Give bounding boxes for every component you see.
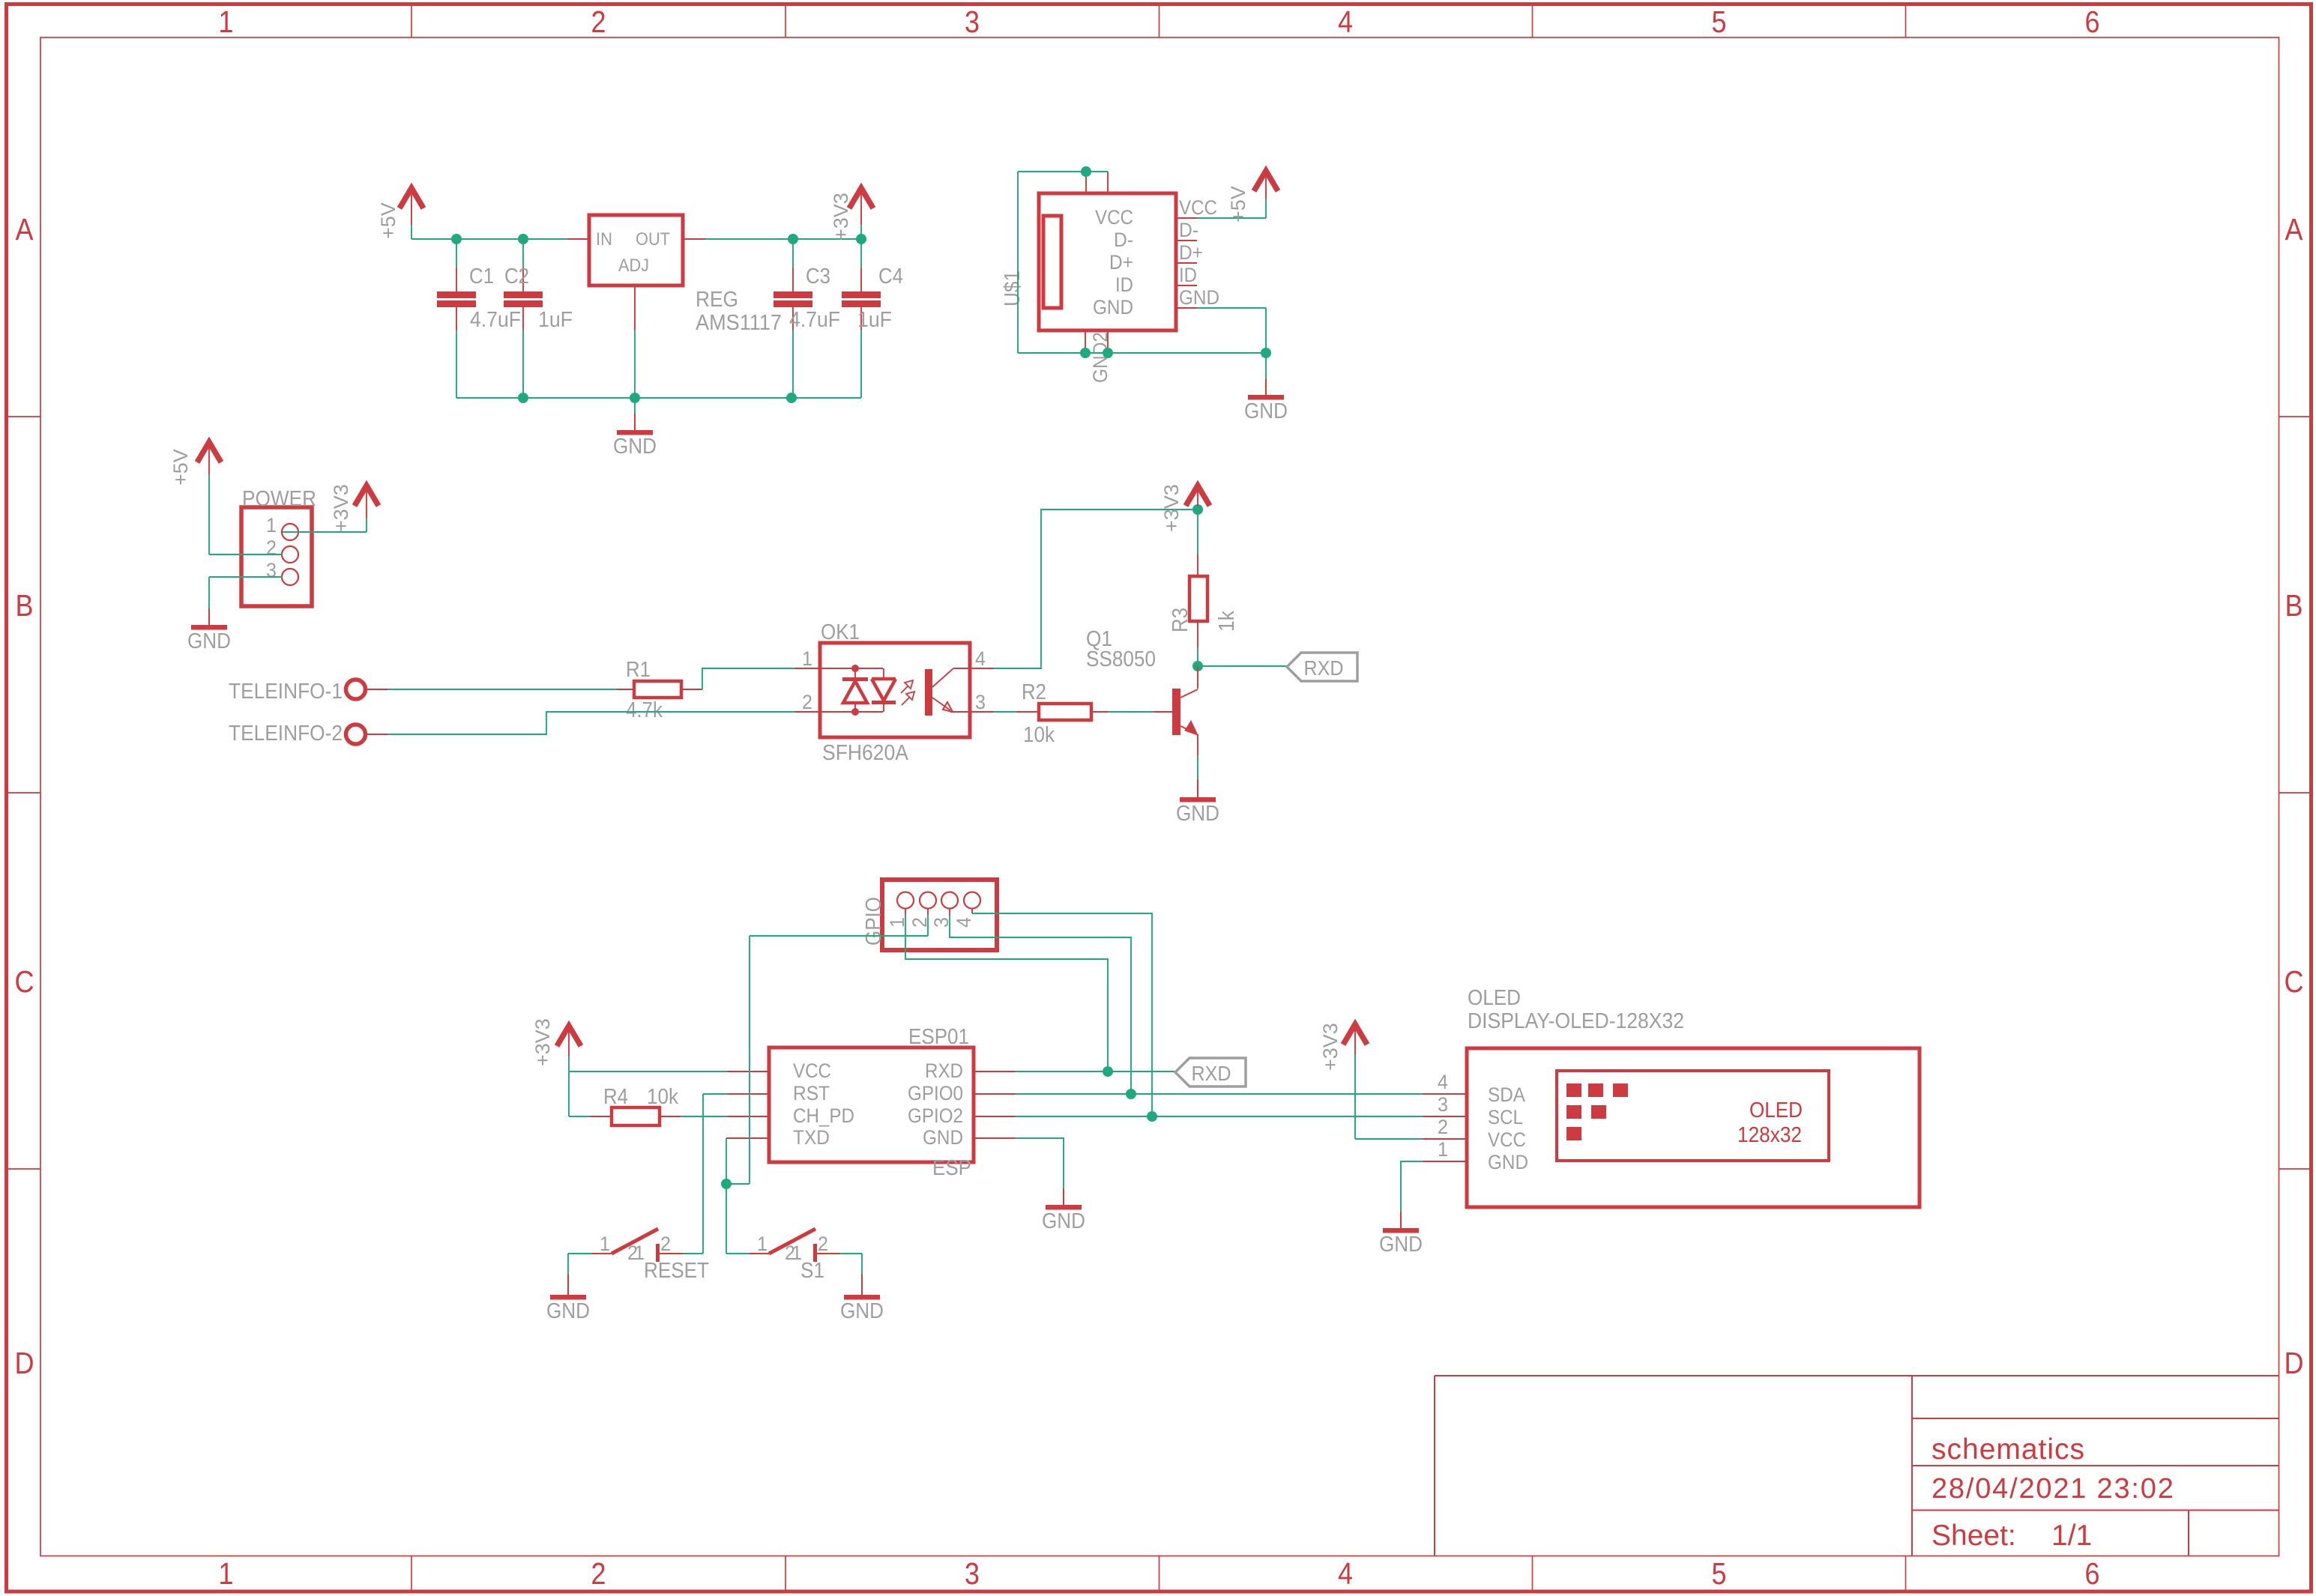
- svg-text:GPIO2: GPIO2: [908, 1104, 963, 1127]
- OK1 led network: [820, 668, 883, 669]
- svg-text:C1: C1: [469, 265, 494, 288]
- svg-text:2: 2: [591, 4, 606, 39]
- junction top shield: [1081, 166, 1091, 177]
- svg-text:28/04/2021 23:02: 28/04/2021 23:02: [1931, 1473, 2175, 1505]
- svg-text:5: 5: [1712, 1556, 1727, 1591]
- svg-text:4.7uF: 4.7uF: [789, 308, 840, 332]
- wire TELEINFO-2 to OK1 pin2: [388, 712, 794, 734]
- svg-text:GND: GND: [546, 1299, 590, 1323]
- OK1 light arrows: [901, 686, 908, 693]
- svg-text:+5V: +5V: [377, 202, 399, 239]
- svg-text:1uF: 1uF: [857, 308, 892, 332]
- svg-text:TELEINFO-1: TELEINFO-1: [229, 680, 343, 704]
- svg-text:B: B: [2285, 588, 2303, 623]
- svg-text:RXD: RXD: [1192, 1062, 1231, 1085]
- svg-text:OLED: OLED: [1468, 986, 1521, 1010]
- junction C2 top: [518, 234, 528, 244]
- svg-text:+5V: +5V: [1227, 186, 1249, 223]
- svg-text:D: D: [15, 1346, 34, 1380]
- wire TXD net: [726, 1138, 727, 1184]
- wire +5V to pin2: [208, 475, 210, 554]
- svg-text:5: 5: [1712, 4, 1727, 39]
- GPIO pin2 wire to TXD: [927, 909, 929, 915]
- svg-text:4: 4: [1438, 1071, 1448, 1093]
- junction shield bottom 1: [1080, 348, 1091, 358]
- svg-text:GND: GND: [1042, 1209, 1085, 1233]
- svg-text:schematics: schematics: [1931, 1433, 2085, 1466]
- ESP01 GND pin stub: [974, 1137, 1016, 1139]
- svg-text:A: A: [2285, 212, 2304, 247]
- svg-text:GND: GND: [613, 435, 657, 459]
- ground GND (OLED): [1400, 1212, 1402, 1228]
- svg-text:SCL: SCL: [1488, 1106, 1523, 1128]
- svg-text:ESP01: ESP01: [908, 1025, 969, 1049]
- svg-text:RXD: RXD: [1304, 656, 1344, 680]
- svg-text:10k: 10k: [1023, 723, 1055, 747]
- svg-text:2: 2: [818, 1233, 828, 1255]
- capacitor C3: [792, 239, 794, 267]
- junction TXD node: [721, 1179, 732, 1189]
- svg-text:D: D: [2285, 1346, 2304, 1380]
- svg-text:C: C: [2285, 964, 2304, 999]
- svg-text:+3V3: +3V3: [531, 1018, 554, 1066]
- svg-text:GND: GND: [923, 1126, 963, 1149]
- OLED pin GND: [1423, 1161, 1467, 1162]
- svg-text:OLED: OLED: [1749, 1098, 1803, 1122]
- power +5V arrow (usb): [1254, 171, 1278, 191]
- svg-text:OK1: OK1: [821, 620, 860, 644]
- ground GND (RESET): [567, 1274, 569, 1295]
- svg-text:2: 2: [660, 1233, 671, 1255]
- svg-text:R4: R4: [603, 1085, 628, 1109]
- power +5V arrow (power conn): [197, 442, 221, 462]
- wire R2 to Q1 base: [1109, 711, 1154, 713]
- wire S1 pin2 to gnd: [840, 1253, 862, 1254]
- svg-text:1: 1: [600, 1233, 610, 1255]
- svg-text:RXD: RXD: [925, 1060, 963, 1082]
- junction +3V3/C4 top: [856, 234, 866, 244]
- svg-text:D-: D-: [1179, 219, 1198, 241]
- usb connector U$1: [1039, 193, 1176, 330]
- connector POWER: [241, 507, 312, 606]
- display OLED DISPLAY-OLED-128X32: [1467, 1048, 1920, 1207]
- svg-text:1k: 1k: [1215, 611, 1239, 632]
- svg-text:GND: GND: [187, 629, 231, 653]
- OLED pin VCC: [1423, 1138, 1467, 1140]
- pin shield (bottom left): [1085, 330, 1086, 353]
- wire R4 to CH_PD: [681, 1116, 727, 1117]
- OLED inner display box: [1557, 1071, 1829, 1161]
- svg-text:SDA: SDA: [1488, 1083, 1525, 1106]
- power +5V arrow (regulator input): [399, 188, 423, 208]
- wire usb GND pin: [1197, 307, 1266, 309]
- svg-text:TELEINFO-2: TELEINFO-2: [229, 722, 343, 746]
- svg-text:ESP: ESP: [932, 1156, 971, 1180]
- svg-text:SS8050: SS8050: [1086, 647, 1156, 671]
- wire OK1 pin3 to R2: [994, 711, 1016, 713]
- ADJ pin wire: [634, 285, 636, 330]
- svg-text:6: 6: [2085, 4, 2100, 39]
- optocoupler OK1 SFH620A: [820, 643, 970, 737]
- junction GPIO2 node: [1147, 1111, 1157, 1122]
- junction Q1 collector node: [1192, 661, 1203, 671]
- wire OUT to +3V3: [705, 238, 861, 240]
- svg-text:GND: GND: [1488, 1151, 1528, 1173]
- svg-text:C4: C4: [878, 265, 903, 288]
- svg-text:REG: REG: [696, 288, 738, 312]
- GPIO pin4 wire to GPIO2: [971, 909, 973, 913]
- wire +3V3 to VCC and R4: [568, 1057, 570, 1116]
- module ESP01: [769, 1048, 974, 1162]
- power +3V3 arrow (power conn): [355, 486, 379, 506]
- ground GND (Q1): [1197, 779, 1198, 797]
- pin 4 of GPIO: [964, 892, 980, 909]
- resistor R2 10k: [1016, 711, 1039, 713]
- svg-text:GND: GND: [1179, 286, 1219, 309]
- junction C2 bottom: [518, 393, 528, 403]
- power +3V3 arrow (regulator output): [849, 188, 873, 208]
- wire RST to RESET switch: [703, 1093, 727, 1095]
- svg-text:3: 3: [965, 4, 980, 39]
- svg-text:C: C: [15, 964, 34, 999]
- svg-text:C3: C3: [806, 265, 830, 288]
- svg-text:3: 3: [1438, 1093, 1448, 1116]
- junction gnd node: [1261, 348, 1271, 358]
- svg-text:1: 1: [219, 4, 234, 39]
- svg-text:3: 3: [975, 691, 986, 713]
- svg-text:GPIO: GPIO: [862, 897, 886, 946]
- wire RXD net: [1016, 1071, 1175, 1072]
- wire RESET pin1 to gnd: [568, 1253, 591, 1254]
- wire pin3 to gnd: [209, 576, 283, 578]
- svg-text:B: B: [16, 588, 34, 623]
- ESP01 TXD pin stub: [726, 1137, 769, 1139]
- wire usb gnd bottom: [1018, 352, 1266, 354]
- svg-text:D+: D+: [1109, 251, 1133, 273]
- svg-text:1uF: 1uF: [538, 308, 573, 332]
- junction ADJ/GND: [630, 393, 640, 403]
- svg-text:VCC: VCC: [1095, 206, 1133, 229]
- svg-text:GND: GND: [1093, 296, 1133, 318]
- svg-text:4: 4: [1338, 4, 1353, 39]
- svg-text:D+: D+: [1179, 241, 1203, 264]
- connector GPIO: [882, 880, 997, 950]
- svg-text:1: 1: [219, 1556, 234, 1591]
- capacitor C4: [860, 239, 862, 267]
- pin GND2 of U$1 (top): [1107, 172, 1109, 193]
- svg-text:CH_PD: CH_PD: [793, 1104, 854, 1127]
- svg-text:SFH620A: SFH620A: [822, 741, 909, 765]
- junction RXD node: [1103, 1066, 1113, 1077]
- pin 2 of POWER: [282, 546, 298, 563]
- svg-text:IN: IN: [596, 229, 612, 250]
- junction GPIO0 node: [1126, 1089, 1136, 1099]
- svg-text:DISPLAY-OLED-128X32: DISPLAY-OLED-128X32: [1468, 1009, 1684, 1033]
- svg-text:A: A: [16, 212, 34, 247]
- power +3V3 arrow (Q1): [1186, 486, 1210, 506]
- svg-text:U$1: U$1: [1001, 270, 1025, 306]
- svg-text:VCC: VCC: [1488, 1128, 1526, 1151]
- OLED pin SDA: [1423, 1093, 1467, 1095]
- svg-text:1: 1: [757, 1233, 768, 1255]
- svg-text:R2: R2: [1022, 680, 1046, 704]
- junction C3 top: [788, 234, 798, 244]
- svg-text:GND: GND: [840, 1299, 884, 1323]
- capacitor C2: [522, 239, 524, 267]
- svg-text:+3V3: +3V3: [830, 193, 852, 241]
- svg-text:ID: ID: [1115, 273, 1133, 296]
- wire R1 to OK1 pin1: [702, 668, 794, 689]
- wire GPIO2 net to OLED SDA: [1016, 1116, 1423, 1117]
- wire collector node to RXD flag: [1198, 665, 1287, 667]
- switch S1: [749, 1253, 769, 1254]
- resistor R4 10k: [590, 1116, 612, 1117]
- wire usb shield left: [1017, 172, 1019, 353]
- junction C1 top: [451, 234, 462, 244]
- net flag RXD (Q1): [1287, 653, 1357, 681]
- svg-text:S1: S1: [800, 1259, 824, 1283]
- GPIO pin3 wire to GPIO0: [949, 909, 950, 915]
- capacitor C1: [456, 239, 457, 267]
- svg-text:1: 1: [634, 1242, 645, 1264]
- wire +3V3 to OLED VCC: [1354, 1055, 1356, 1139]
- ESP01 RST pin stub: [727, 1093, 769, 1095]
- svg-text:128x32: 128x32: [1737, 1123, 1802, 1147]
- junction shield bottom 2: [1103, 348, 1113, 358]
- svg-text:4.7k: 4.7k: [626, 698, 663, 722]
- switch RESET: [591, 1253, 612, 1254]
- svg-text:R3: R3: [1168, 608, 1192, 632]
- svg-text:POWER: POWER: [242, 487, 316, 511]
- ground GND (S1): [861, 1274, 863, 1295]
- wire GPIO0 net to OLED SCL: [1016, 1093, 1423, 1095]
- svg-text:2: 2: [266, 536, 277, 559]
- wire TXD node to S1: [726, 1184, 727, 1254]
- ESP01 CH_PD pin stub: [727, 1116, 769, 1117]
- wire +5V to IN: [411, 225, 412, 239]
- pin 1 of POWER: [282, 524, 298, 540]
- svg-text:+3V3: +3V3: [1319, 1023, 1342, 1071]
- net flag RXD (ESP01): [1175, 1058, 1246, 1086]
- svg-text:1: 1: [1438, 1138, 1448, 1161]
- regulator REG AMS1117: [567, 238, 589, 240]
- OLED pin SCL: [1423, 1116, 1467, 1117]
- wire pin1 to +3V3: [283, 531, 367, 533]
- resistor R3 1k: [1197, 510, 1198, 554]
- ground GND (usb): [1265, 353, 1267, 378]
- Q1 emitter to gnd: [1197, 734, 1198, 756]
- svg-text:2: 2: [591, 1556, 606, 1591]
- svg-text:GPIO0: GPIO0: [908, 1082, 963, 1104]
- wire VCC to +5V: [1197, 217, 1266, 219]
- ground GND (regulator): [634, 398, 636, 414]
- power +3V3 arrow (ESP01): [557, 1026, 581, 1046]
- svg-text:GND: GND: [1379, 1233, 1423, 1257]
- wire TXD node to GPIO pin2: [726, 1183, 750, 1185]
- pin 2 of GPIO: [920, 892, 936, 909]
- ESP01 GPIO0 pin stub: [974, 1093, 1016, 1095]
- pin shield GND2 (bottom right): [1107, 330, 1109, 353]
- svg-text:1: 1: [802, 647, 812, 670]
- pin 1 of GPIO: [897, 892, 914, 909]
- svg-text:3: 3: [266, 559, 277, 581]
- svg-text:R1: R1: [626, 658, 651, 682]
- svg-text:+5V: +5V: [169, 449, 192, 486]
- svg-text:ADJ: ADJ: [618, 256, 649, 276]
- svg-text:OUT: OUT: [636, 229, 670, 250]
- svg-text:2: 2: [1438, 1116, 1448, 1138]
- wire usb shield top: [1018, 171, 1108, 172]
- OK1 pin3 stub: [970, 711, 994, 713]
- svg-text:4: 4: [1338, 1556, 1353, 1591]
- svg-text:VCC: VCC: [793, 1060, 831, 1082]
- svg-text:4: 4: [975, 647, 986, 670]
- OK1 phototransistor: [925, 669, 932, 716]
- svg-text:VCC: VCC: [1179, 196, 1217, 219]
- pin GND1 of U$1 (top): [1085, 172, 1087, 193]
- svg-text:RST: RST: [793, 1082, 830, 1104]
- pin 3 of GPIO: [941, 892, 958, 909]
- svg-text:D-: D-: [1114, 229, 1133, 251]
- ESP01 VCC pin stub: [727, 1071, 769, 1072]
- svg-text:4: 4: [953, 917, 975, 928]
- svg-text:GND: GND: [1176, 802, 1219, 826]
- svg-text:4.7uF: 4.7uF: [470, 308, 521, 332]
- ground GND (ESP01): [1063, 1188, 1064, 1205]
- svg-text:6: 6: [2085, 1556, 2100, 1591]
- svg-text:10k: 10k: [647, 1085, 678, 1109]
- ESP01 GPIO2 pin stub: [974, 1116, 1016, 1117]
- wire OLED GND: [1401, 1161, 1423, 1212]
- OK1 pin4 stub: [970, 668, 994, 669]
- svg-text:Sheet:: Sheet:: [1931, 1520, 2016, 1552]
- junction C3 bottom: [786, 393, 797, 403]
- svg-text:1/1: 1/1: [2051, 1520, 2092, 1552]
- svg-text:ID: ID: [1179, 264, 1197, 286]
- junction +3V3 node (Q1): [1192, 504, 1203, 515]
- svg-text:C2: C2: [504, 265, 529, 288]
- ground GND (power conn): [208, 608, 210, 625]
- svg-text:RESET: RESET: [644, 1259, 709, 1283]
- svg-text:3: 3: [965, 1556, 980, 1591]
- pin 3 of POWER: [282, 569, 298, 585]
- wire ESP01 GND: [1016, 1138, 1064, 1188]
- svg-text:TXD: TXD: [793, 1126, 830, 1149]
- wire OK1 pin4 to +3V3 rail: [994, 510, 1198, 668]
- GPIO pin1 wire to RXD: [905, 909, 906, 915]
- svg-text:1: 1: [266, 514, 277, 536]
- wire TELEINFO-1 to R1: [388, 689, 617, 690]
- svg-text:GND: GND: [1244, 399, 1288, 423]
- power +3V3 arrow (OLED): [1343, 1024, 1367, 1045]
- svg-text:2: 2: [802, 691, 812, 713]
- svg-text:+3V3: +3V3: [330, 484, 352, 532]
- svg-text:AMS1117: AMS1117: [696, 311, 782, 335]
- ESP01 RXD pin stub: [974, 1071, 1016, 1072]
- wire gnd rail (regulator): [456, 397, 861, 399]
- svg-text:+3V3: +3V3: [1160, 484, 1183, 532]
- resistor R1 4.7k: [617, 689, 634, 690]
